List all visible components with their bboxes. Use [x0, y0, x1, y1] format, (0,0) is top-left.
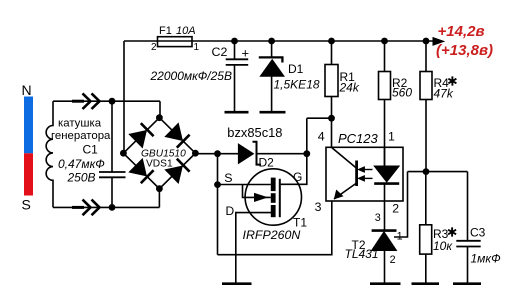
magnet N pole (blue bar) [24, 97, 33, 154]
svg-text:22000мкФ/25В: 22000мкФ/25В [150, 69, 233, 83]
T1 body arrow [243, 185, 271, 198]
node bridge left [120, 150, 127, 157]
node bridge right [192, 150, 199, 157]
svg-text:1: 1 [388, 130, 395, 144]
optocoupler PC123 [326, 147, 403, 201]
svg-text:генератора: генератора [51, 130, 111, 142]
svg-text:C1: C1 [83, 143, 99, 157]
node C1 top [109, 98, 116, 105]
wire fuse drop to bridge left [123, 41, 125, 153]
node R2 top [381, 38, 388, 45]
wire top wire to bridge [159, 101, 161, 118]
ground C2 [225, 111, 249, 114]
svg-text:2: 2 [392, 202, 399, 216]
svg-text:катушка: катушка [58, 118, 102, 130]
node bridge top [156, 114, 163, 121]
bridge diode top-right [165, 123, 189, 147]
node D2 S-branch [214, 150, 221, 157]
svg-text:2: 2 [390, 254, 396, 266]
svg-text:S: S [22, 197, 31, 213]
T1 source wire [218, 184, 271, 186]
wire T2 ref [394, 172, 408, 237]
diode D1 (TVS) [271, 41, 273, 111]
bridge rectifier VDS1 GBU1510 diamond [123, 118, 195, 189]
svg-text:bzx85c18: bzx85c18 [227, 125, 282, 140]
wire junction horizontal [408, 171, 468, 173]
ground R3 [412, 282, 440, 285]
svg-text:3: 3 [315, 200, 322, 214]
T1 drain wire [236, 213, 271, 283]
magnet S pole (red bar) [24, 153, 33, 195]
PC123 LED [374, 166, 399, 182]
capacitor C1 [111, 101, 113, 207]
svg-text:+14,2в: +14,2в [438, 23, 485, 40]
wire coil top [53, 100, 160, 102]
svg-text:PC123: PC123 [338, 131, 379, 146]
svg-text:1: 1 [397, 231, 403, 243]
svg-text:3: 3 [375, 212, 381, 224]
wire S vertical [217, 154, 219, 255]
T1 gate wire [281, 154, 307, 185]
capacitor C2 [234, 41, 236, 111]
bridge diode bottom-right [165, 159, 189, 183]
wire bridge bottom to coil wire [158, 189, 160, 208]
svg-text:560: 560 [392, 86, 412, 100]
top rail wire [124, 40, 435, 42]
output arrow [433, 38, 444, 46]
svg-text:47k: 47k [434, 87, 454, 101]
svg-text:D: D [226, 204, 235, 218]
node S [214, 181, 221, 188]
svg-text:1мкФ: 1мкФ [471, 252, 502, 266]
svg-text:(+13,8в): (+13,8в) [436, 42, 493, 59]
svg-text:+: + [242, 46, 250, 61]
svg-text:TL431: TL431 [345, 247, 379, 261]
svg-text:IRFP260N: IRFP260N [243, 228, 301, 242]
wire bottom S to pin3 [218, 201, 332, 255]
resistor R2 [384, 41, 386, 166]
svg-text:24k: 24k [339, 81, 360, 95]
svg-text:D2: D2 [259, 156, 275, 170]
resistor R4 [425, 41, 427, 172]
svg-text:D1: D1 [288, 62, 304, 76]
svg-text:1: 1 [194, 42, 200, 53]
svg-text:4: 4 [318, 130, 325, 144]
node C1 bottom [109, 204, 116, 211]
T1 gate bar [279, 179, 281, 217]
PC123 light arrows [361, 169, 373, 171]
ground D1 [260, 111, 286, 114]
node C2 top [231, 38, 238, 45]
svg-text:10A: 10A [176, 25, 196, 37]
svg-text:C2: C2 [212, 45, 228, 59]
resistor R1 [331, 41, 333, 147]
fuse F1 [158, 37, 193, 47]
transistor T1 IRFP260N [245, 169, 301, 225]
PC123 phototransistor [332, 148, 356, 168]
node R4 bottom junction [423, 168, 430, 175]
ground T2 [370, 282, 401, 285]
svg-text:S: S [224, 171, 232, 185]
svg-text:F1: F1 [159, 25, 172, 37]
resistor R3 [425, 172, 427, 283]
svg-text:1,5KE18: 1,5KE18 [274, 78, 320, 92]
node R4 top [423, 38, 430, 45]
wire gate branch to R1 junction [307, 118, 332, 154]
connector chevrons bottom wire [72, 206, 84, 209]
wire coil bottom [53, 206, 159, 208]
svg-text:N: N [22, 82, 32, 98]
svg-text:250В: 250В [67, 171, 96, 185]
shunt regulator T2 TL431 [372, 229, 397, 232]
generator coil L (катушка генератора) [46, 101, 53, 207]
bridge diode bottom-left [129, 159, 153, 183]
node D1 top [268, 38, 275, 45]
connector chevrons top wire [72, 100, 84, 103]
capacitor C3 [467, 172, 469, 283]
svg-text:C3: C3 [470, 226, 486, 240]
node R1 bottom junction [328, 115, 335, 122]
ground C3 [453, 282, 481, 285]
diode D2 bzx85c18 [195, 153, 306, 155]
T1 channel segments [271, 178, 276, 192]
node R1 top [328, 38, 335, 45]
node bridge bottom [156, 185, 163, 192]
svg-text:2: 2 [151, 42, 157, 53]
ground T1 drain [222, 282, 252, 285]
svg-text:10к: 10к [433, 239, 453, 253]
node gate branch [303, 150, 310, 157]
svg-text:VDS1: VDS1 [146, 159, 173, 170]
bridge diode top-left [129, 123, 153, 147]
svg-text:0,47мкФ: 0,47мкФ [58, 157, 105, 171]
